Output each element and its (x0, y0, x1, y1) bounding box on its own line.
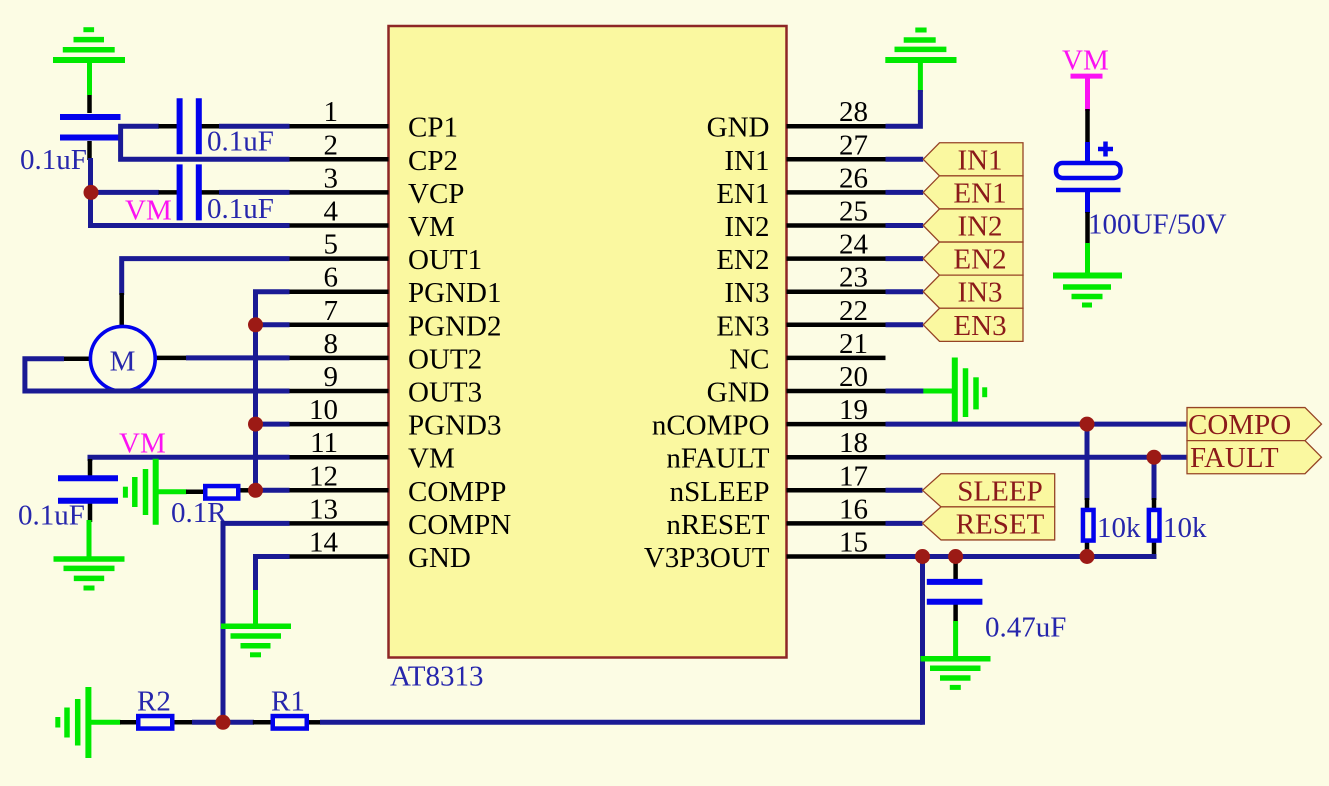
svg-text:CP2: CP2 (408, 145, 458, 177)
svg-text:22: 22 (839, 295, 868, 327)
svg-text:AT8313: AT8313 (390, 661, 483, 693)
svg-text:26: 26 (839, 162, 868, 194)
svg-text:13: 13 (309, 493, 338, 525)
port flag COMPO (1187, 408, 1322, 441)
ground GND1 top-left (53, 30, 125, 95)
svg-text:nSLEEP: nSLEEP (670, 476, 770, 508)
wire pin19 nCOMPO to flag COMPO (886, 422, 1189, 427)
left pin stubs 1-14 (290, 126, 389, 556)
svg-text:OUT1: OUT1 (408, 244, 482, 276)
right pin names block (644, 112, 770, 574)
svg-text:NC: NC (729, 343, 769, 375)
port flag SLEEP (923, 474, 1055, 507)
svg-text:M: M (110, 346, 136, 378)
capacitor C6 plus sign (1098, 142, 1113, 157)
wire pin20 GND to sideways ground (886, 389, 926, 394)
wire C2 right plate to pin3 VCP (219, 190, 290, 195)
resistor R4 pin stubs (1085, 498, 1090, 557)
junction dot pin15 riser (915, 549, 930, 564)
svg-text:7: 7 (324, 295, 339, 327)
svg-text:6: 6 (324, 262, 339, 294)
wire pin5 OUT1 to motor top (122, 259, 290, 295)
port flag EN2 (923, 242, 1023, 275)
svg-text:0.1uF: 0.1uF (20, 144, 87, 176)
svg-text:0.1uF: 0.1uF (207, 193, 274, 225)
svg-text:CP1: CP1 (408, 112, 458, 144)
wire pin27 to flag IN1 (886, 157, 924, 162)
capacitor C6 bottom stem (1085, 192, 1090, 213)
ground GND3 below C4 (54, 520, 125, 588)
wire R5 bottom corner (1152, 554, 1157, 559)
svg-text:2: 2 (324, 129, 339, 161)
svg-text:VM: VM (125, 195, 172, 227)
ground GND2 middle-left sideways (125, 459, 186, 525)
junction dot R4 bottom (1080, 549, 1095, 564)
junction dot pin10 (248, 417, 263, 432)
ground GND9 below C6 (1053, 243, 1122, 305)
svg-text:COMPN: COMPN (408, 509, 511, 541)
svg-text:R2: R2 (137, 686, 171, 718)
svg-text:19: 19 (839, 394, 868, 426)
ground GND8 below C5 (921, 621, 991, 687)
svg-text:0.1R: 0.1R (171, 497, 227, 529)
junction dot pin12 (248, 483, 263, 498)
capacitor C6 bottom pin stub (1085, 212, 1090, 244)
svg-text:IN3: IN3 (957, 277, 1002, 309)
svg-text:24: 24 (839, 229, 869, 261)
capacitor C4 0.1uF pin stubs (88, 459, 93, 522)
capacitor C6 top pin stub (1085, 109, 1090, 145)
wire pin2 CP2 U-route (121, 126, 290, 159)
wire pin26 to flag EN1 (886, 190, 924, 195)
svg-text:20: 20 (839, 361, 868, 393)
svg-text:5: 5 (324, 229, 339, 261)
svg-text:EN1: EN1 (716, 178, 769, 210)
svg-text:FAULT: FAULT (1190, 442, 1279, 474)
wire pin14 GND down (256, 557, 290, 593)
svg-text:EN3: EN3 (716, 310, 769, 342)
resistor R1 body (273, 716, 307, 729)
junction dot C5 tap (948, 549, 963, 564)
svg-text:OUT3: OUT3 (408, 377, 482, 409)
svg-text:0.1uF: 0.1uF (18, 500, 85, 532)
resistor R3 0.1R pin stubs (186, 490, 256, 491)
svg-text:IN3: IN3 (724, 277, 769, 309)
junction dot pin7 (248, 317, 263, 332)
svg-text:0.1uF: 0.1uF (207, 126, 274, 158)
svg-text:nCOMPO: nCOMPO (652, 410, 770, 442)
capacitor C3 0.1uF left-top plates (60, 117, 121, 138)
svg-text:4: 4 (324, 196, 339, 228)
wire pin12 COMPP tap (256, 488, 290, 493)
capacitor C1 0.1uF plates (180, 98, 199, 154)
left pin numbers 1-14 (309, 96, 339, 558)
svg-text:VM: VM (408, 211, 455, 243)
ground GND5 bottom-left sideways (58, 687, 121, 758)
wire R2 to junction (192, 720, 226, 725)
capacitor C3 0.1uF left-top pin stubs (87, 95, 92, 160)
svg-text:RESET: RESET (956, 508, 1045, 540)
ground GND6 top-right (885, 30, 956, 92)
resistor R5 pin stubs (1152, 498, 1157, 557)
port flag IN1 (923, 143, 1023, 176)
capacitor C6 100UF/50V bottom plate (1056, 188, 1121, 193)
wire C3 bottom to node VM vertical (88, 158, 93, 226)
svg-text:V3P3OUT: V3P3OUT (644, 542, 770, 574)
ground GND4 below pin14 (221, 590, 291, 655)
svg-text:IN1: IN1 (724, 145, 769, 177)
capacitor C2 0.1uF pin stubs (159, 190, 221, 195)
svg-text:10: 10 (309, 394, 338, 426)
wire pin28 GND to ground (886, 90, 921, 126)
svg-text:VM: VM (408, 443, 455, 475)
resistor R5 10k body (1149, 510, 1160, 541)
left pin names block (408, 112, 511, 574)
motor M1 left pin stub (63, 357, 90, 362)
wire pin16 to flag RESET (886, 521, 923, 526)
port flag FAULT (1187, 441, 1322, 474)
svg-text:0.47uF: 0.47uF (985, 612, 1066, 644)
capacitor C1 0.1uF pin stubs (159, 124, 221, 129)
wire pin22 to flag EN3 (886, 322, 924, 327)
wire pin25 to flag IN2 (886, 223, 924, 228)
svg-text:GND: GND (408, 542, 471, 574)
capacitor C2 0.1uF plates (180, 164, 199, 220)
motor M1 circle (90, 326, 155, 391)
svg-text:100UF/50V: 100UF/50V (1088, 209, 1227, 241)
svg-text:EN1: EN1 (953, 177, 1006, 209)
right pin stubs 28-15 (787, 126, 886, 556)
svg-text:1: 1 (324, 96, 339, 128)
svg-text:16: 16 (839, 493, 868, 525)
svg-text:14: 14 (309, 527, 339, 559)
wire pin13 COMPN down to bottom rail (223, 523, 290, 722)
svg-text:VCP: VCP (408, 178, 464, 210)
svg-text:COMPP: COMPP (408, 476, 506, 508)
wire pin4 VM: node down and right to pin 4 (88, 223, 290, 228)
wire node to C2 left (91, 190, 159, 195)
svg-text:IN1: IN1 (957, 144, 1002, 176)
svg-text:3: 3 (324, 162, 339, 194)
svg-text:23: 23 (839, 262, 868, 294)
svg-text:R1: R1 (271, 686, 305, 718)
svg-text:VM: VM (1062, 45, 1109, 77)
wire junction to R1 (223, 720, 254, 725)
resistor R4 10k riser from pin19 (1085, 424, 1090, 500)
port flag EN1 (923, 176, 1023, 209)
resistor R2 body (138, 716, 172, 729)
port flag IN3 (923, 275, 1023, 308)
svg-text:9: 9 (324, 361, 339, 393)
motor M1 top pin stub (119, 293, 124, 327)
junction dot nFAULT/R5 (1147, 450, 1162, 465)
wire C1 right plate to pin1 CP1 (219, 124, 290, 129)
motor M1 right pin stub (156, 356, 187, 361)
wire pin17 to flag SLEEP (886, 488, 923, 493)
ground GND7 right sideways (923, 358, 984, 424)
right pin numbers 28-15 (839, 96, 869, 558)
junction dot nCOMPO/R4 (1080, 417, 1095, 432)
resistor R3 0.1R body (205, 486, 238, 499)
svg-text:GND: GND (707, 112, 770, 144)
resistor R4 10k body (1083, 510, 1094, 541)
svg-text:17: 17 (839, 460, 868, 492)
wire motor left loop to pin9 OUT3 (25, 359, 290, 391)
resistor R2 pin stubs (120, 720, 193, 725)
svg-text:nFAULT: nFAULT (666, 443, 769, 475)
svg-text:EN2: EN2 (953, 244, 1006, 276)
port flag EN3 (923, 308, 1023, 341)
svg-text:IN2: IN2 (957, 211, 1002, 243)
capacitor C6 wire into top plate (1085, 142, 1090, 164)
svg-text:IN2: IN2 (724, 211, 769, 243)
svg-text:15: 15 (839, 527, 868, 559)
wire pin18 nFAULT to flag FAULT (886, 455, 1189, 460)
svg-text:PGND1: PGND1 (408, 277, 501, 309)
svg-text:25: 25 (839, 196, 868, 228)
svg-text:28: 28 (839, 96, 868, 128)
wire pin23 to flag IN3 (886, 289, 924, 294)
junction dot bottom rail (216, 715, 231, 730)
wire pin7 PGND2 tap (256, 322, 290, 327)
svg-text:21: 21 (839, 328, 868, 360)
junction node VM-A dot (84, 185, 99, 200)
capacitor C6 100UF/50V top plate (1056, 163, 1121, 178)
wire PGND bus pin6 corner down to pin12 (256, 292, 290, 491)
wire bottom rail R1 to pin15 riser (320, 720, 923, 725)
resistor R5 10k riser from pin18 (1152, 457, 1157, 500)
wire pin24 to flag EN2 (886, 256, 924, 261)
svg-text:nRESET: nRESET (666, 509, 769, 541)
svg-text:SLEEP: SLEEP (957, 475, 1042, 507)
svg-text:COMPO: COMPO (1188, 409, 1291, 441)
svg-text:GND: GND (707, 377, 770, 409)
svg-text:10k: 10k (1163, 512, 1207, 544)
svg-text:8: 8 (324, 328, 339, 360)
svg-text:PGND2: PGND2 (408, 310, 501, 342)
wire motor right to pin8 OUT2 (186, 355, 290, 360)
port flag IN2 (923, 209, 1023, 242)
power symbol VM top-right (1071, 76, 1103, 111)
svg-text:18: 18 (839, 427, 868, 459)
capacitor C5 0.47uF pin stubs (953, 558, 958, 623)
wire pin15 V3P3OUT rail to resistors (886, 554, 1155, 559)
wire pin15 riser down to bottom rail (920, 557, 925, 725)
port flag RESET (923, 507, 1055, 540)
wire pin10 PGND3 tap (256, 422, 290, 427)
capacitor C5 0.47uF plates (927, 582, 983, 602)
svg-text:OUT2: OUT2 (408, 343, 482, 375)
svg-text:27: 27 (839, 129, 868, 161)
wire pin11 VM rail (90, 457, 290, 461)
svg-text:12: 12 (309, 460, 338, 492)
capacitor C4 0.1uF plates (58, 478, 118, 501)
svg-text:11: 11 (310, 427, 338, 459)
resistor R1 pin stubs (253, 720, 321, 725)
svg-text:EN3: EN3 (953, 310, 1006, 342)
svg-text:EN2: EN2 (716, 244, 769, 276)
IC U1 AT8313 body (389, 26, 787, 658)
svg-text:PGND3: PGND3 (408, 410, 501, 442)
svg-text:10k: 10k (1097, 512, 1141, 544)
